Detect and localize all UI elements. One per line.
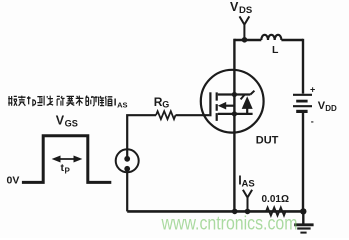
gate bar [209,92,211,116]
pulse source bottom terminal dot [124,166,130,172]
svg-text:0.01Ω: 0.01Ω [262,194,289,205]
char bian [18,96,25,106]
battery VDD [293,95,312,112]
wire inductor to right corner [281,39,303,41]
junction dot source at bottom wire [232,209,238,215]
svg-text:G: G [162,100,169,110]
svg-text:DS: DS [239,5,252,16]
svg-text:-: - [311,117,314,127]
diode anode stem [246,109,248,114]
drain stub / diode cathode bar [218,93,251,95]
char zhi [105,96,112,106]
junction dot VDS probe [242,37,248,43]
pulse source top terminal dot [124,156,130,162]
junction dot ground [300,208,306,214]
svg-text:+: + [310,85,315,95]
char feng [95,96,105,106]
transistor Q1 DUT circle [201,70,264,133]
probe IAS [243,190,252,212]
svg-text:AS: AS [242,178,255,189]
svg-text:V: V [230,0,239,14]
resistor RG zigzag [156,111,176,119]
source stub / diode anode bar [218,113,253,115]
svg-text:DUT: DUT [256,135,279,147]
char yao [66,96,74,105]
svg-text:GS: GS [65,118,78,128]
svg-text:V: V [56,114,65,128]
char dao [37,96,44,106]
inductor L [261,35,281,40]
zener tick left [241,95,245,99]
pulse source circle [116,149,139,172]
wire battery to bottom junction [302,112,304,211]
junction dot IAS probe [245,209,251,215]
caption IAS [114,98,128,110]
resistor 0.01ohm zigzag [266,207,285,215]
svg-text:L: L [272,44,279,56]
svg-text:0V: 0V [7,175,20,187]
wire pulse gen bottom lead [126,169,128,211]
svg-text:DD: DD [325,104,337,113]
waveform VGS pulse [22,136,111,183]
wire right rail down to battery [302,39,304,94]
char suo [57,96,65,106]
p sub [33,99,36,106]
t [27,96,31,104]
char qiu [76,96,84,106]
svg-text:P: P [65,166,71,175]
junction dot drain/diode top [232,92,237,97]
ground [294,211,313,232]
char da [47,96,53,106]
wire RG to gate [176,114,210,116]
body arrow head [218,102,226,110]
chinese caption (fake glyph strokes for CJK) [8,96,112,107]
channel bar dashes [216,92,218,121]
wire drain vertical through DUT to bottom wire [233,39,235,212]
wire bottom horizontal [127,210,303,213]
zener tick right [250,91,254,95]
probe VDS [240,16,250,40]
wire top horizontal from drain corner to inductor [234,39,261,41]
tp arrow [53,156,81,162]
body diode triangle [242,96,253,109]
junction dot source/diode bottom [232,111,237,116]
body arrow line [225,105,235,107]
char de [86,96,94,106]
svg-text:www.cntronics.com: www.cntronics.com [161,214,298,235]
svg-text:AS: AS [117,100,127,109]
pulse source top lead inside [126,150,128,159]
char gai [8,96,17,106]
wire pulse gen top to gate corner [127,115,156,159]
